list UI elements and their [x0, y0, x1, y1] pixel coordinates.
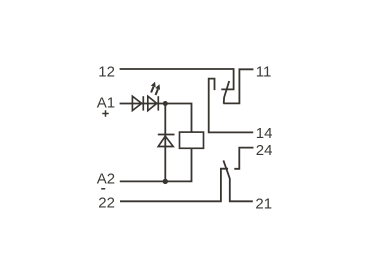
svg-text:21: 21 — [255, 196, 272, 213]
wire net 21 (common of bottom changeover) with movable arm — [223, 160, 252, 201]
wire branch from A1 node down to A2 line — [164, 104, 166, 182]
LED arrow 2 — [155, 84, 160, 95]
terminal label 11 — [256, 63, 272, 80]
wire net 24 (NO fixed contact of bottom changeover) — [234, 148, 253, 169]
svg-text:A1: A1 — [97, 95, 115, 112]
LED arrow 1 — [151, 82, 156, 93]
polarity minus sign — [101, 188, 105, 190]
series diode V1 — [132, 96, 143, 110]
wire net 11 (common of top changeover) — [223, 69, 253, 103]
terminal label 12 — [98, 64, 115, 81]
polarity plus sign — [102, 110, 108, 117]
svg-text:22: 22 — [98, 195, 115, 212]
terminal label A2 — [97, 170, 115, 187]
wire net A2 to coil bottom — [120, 148, 192, 181]
terminal label 24 — [256, 142, 273, 159]
terminal label 14 — [256, 125, 273, 142]
svg-text:24: 24 — [256, 142, 273, 159]
wire net 12 (NC fixed contact of top changeover) — [120, 69, 234, 89]
relay coil K1 — [180, 132, 204, 148]
LED indicator — [148, 96, 159, 110]
terminal label 22 — [98, 195, 115, 212]
flyback diode V2 (cathode up) — [158, 135, 175, 147]
svg-text:12: 12 — [98, 64, 115, 81]
svg-text:14: 14 — [256, 125, 273, 142]
wire net A1 to coil top — [120, 104, 192, 133]
wire net 22 (NC fixed contact of bottom changeover) — [120, 169, 228, 202]
wire net 14 (NO fixed contact of top changeover) — [209, 79, 254, 133]
movable arm of top contact — [224, 81, 230, 104]
junction node on A1 line — [163, 101, 168, 106]
junction node on A2 line — [163, 179, 168, 184]
terminal label 21 — [255, 196, 272, 213]
terminal label A1 — [97, 95, 115, 112]
svg-text:11: 11 — [256, 63, 272, 80]
svg-text:A2: A2 — [97, 170, 115, 187]
